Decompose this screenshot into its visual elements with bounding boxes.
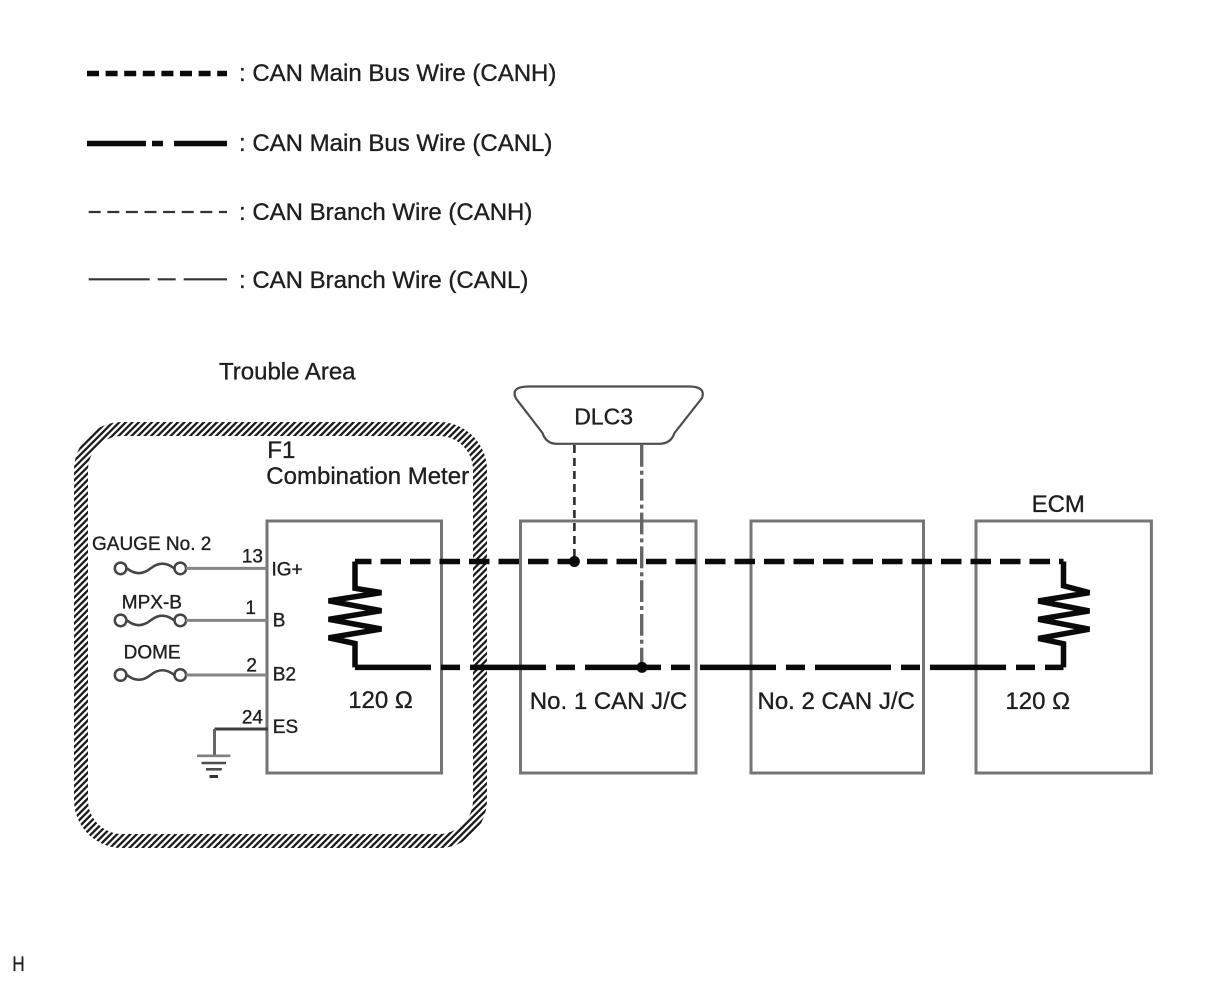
svg-text:No. 1 CAN J/C: No. 1 CAN J/C [530, 688, 687, 715]
svg-text:DLC3: DLC3 [574, 404, 633, 430]
svg-text:No. 2 CAN J/C: No. 2 CAN J/C [758, 688, 915, 715]
svg-text:13: 13 [242, 547, 263, 568]
svg-text:IG+: IG+ [272, 560, 303, 581]
svg-text:B2: B2 [273, 665, 296, 686]
svg-text:1: 1 [245, 598, 256, 619]
svg-text:ECM: ECM [1032, 491, 1085, 518]
svg-text:B: B [273, 611, 286, 632]
svg-text:Trouble Area: Trouble Area [219, 359, 356, 386]
svg-text:Combination Meter: Combination Meter [266, 463, 469, 490]
svg-text:2: 2 [246, 656, 257, 677]
svg-text:120 Ω: 120 Ω [1005, 688, 1070, 715]
svg-text:MPX-B: MPX-B [122, 593, 182, 614]
svg-text:GAUGE No. 2: GAUGE No. 2 [92, 534, 211, 555]
svg-text:ES: ES [273, 717, 298, 738]
svg-text:F1: F1 [267, 437, 295, 464]
svg-text:: CAN Main Bus Wire (CANH): : CAN Main Bus Wire (CANH) [239, 60, 556, 87]
svg-text:: CAN Branch Wire (CANL): : CAN Branch Wire (CANL) [239, 267, 528, 294]
svg-text:: CAN Branch Wire (CANH): : CAN Branch Wire (CANH) [239, 199, 532, 226]
svg-text:DOME: DOME [124, 643, 181, 664]
svg-text:H: H [12, 954, 24, 977]
svg-text:: CAN Main Bus Wire (CANL): : CAN Main Bus Wire (CANL) [239, 130, 552, 157]
svg-text:120 Ω: 120 Ω [348, 687, 413, 714]
svg-text:24: 24 [242, 707, 264, 728]
